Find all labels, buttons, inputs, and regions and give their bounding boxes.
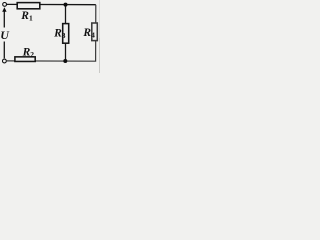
terminal node top-left bbox=[3, 3, 7, 7]
junction node top R3 tap bbox=[64, 3, 68, 7]
wire right (R4 branch) bbox=[7, 5, 96, 62]
resistor R1 bbox=[17, 3, 40, 9]
junction node bottom R3 tap bbox=[63, 59, 67, 63]
resistor R2 bbox=[15, 57, 35, 62]
voltage arrow U head bbox=[2, 7, 6, 11]
wire top bbox=[7, 3, 96, 5]
svg-text:U: U bbox=[0, 28, 10, 42]
scan edge artifact right bbox=[98, 0, 101, 73]
resistor R3 bbox=[63, 24, 69, 44]
terminal node bottom-left bbox=[3, 59, 7, 63]
voltage arrow U shaft bbox=[3, 11, 5, 58]
wire R3 branch bbox=[65, 5, 67, 62]
resistor R4 bbox=[92, 23, 98, 41]
